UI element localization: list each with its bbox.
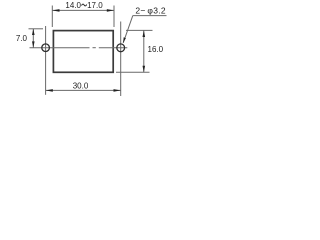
16.0 dimension line [143,30,145,72]
svg-text:7.0: 7.0 [16,34,28,43]
panel cutout rectangle [53,31,113,73]
horizontal centerline through holes [30,47,128,49]
svg-text:16.0: 16.0 [148,45,164,54]
left mounting hole [42,44,50,52]
svg-text:17.0: 17.0 [87,1,103,10]
vertical extension line through right hole [120,22,122,97]
7.0 dimension extension line [29,28,44,30]
7.0 dimension line [32,29,34,48]
16.0 top extension line [126,29,153,31]
svg-text:14.0: 14.0 [65,1,81,10]
right mounting hole [117,44,125,52]
svg-text:2− φ3.2: 2− φ3.2 [135,6,166,16]
16.0 bottom extension line [116,71,150,73]
top dimension line 14.0~17.0 [52,9,114,11]
vertical extension line through left hole [45,26,47,95]
svg-text:30.0: 30.0 [73,82,89,91]
top dimension extension lines [52,6,114,28]
hole callout leader 2-phi3.2 [133,15,167,17]
30.0 dimension line [46,89,121,91]
